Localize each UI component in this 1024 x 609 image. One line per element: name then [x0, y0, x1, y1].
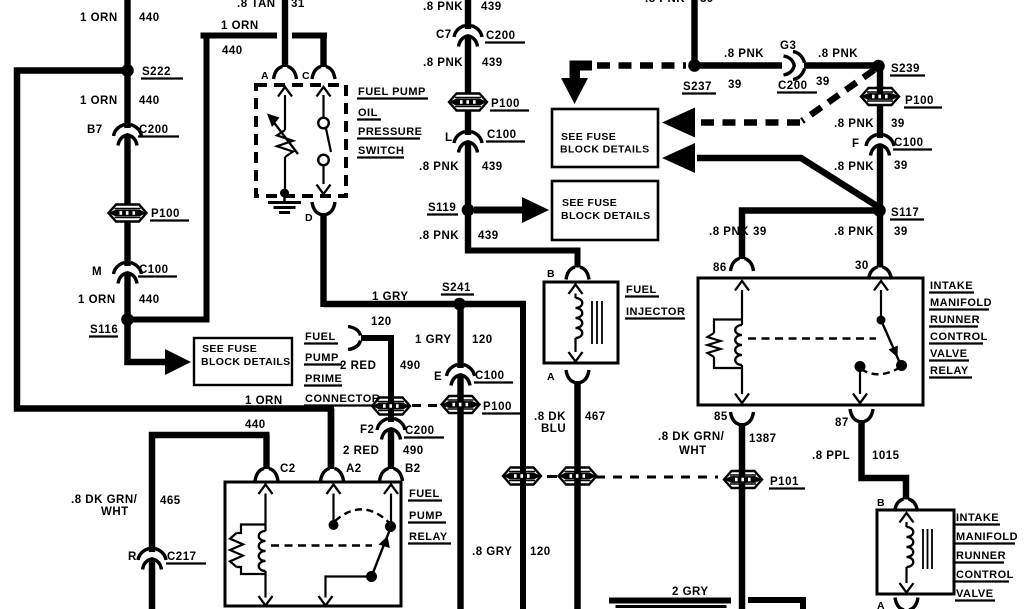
svg-text:B7: B7 [87, 124, 103, 136]
svg-text:FUEL PUMP: FUEL PUMP [358, 86, 426, 98]
relay1 internal arrow-in C2 [259, 485, 273, 495]
svg-text:A2: A2 [346, 463, 362, 475]
svg-text:SWITCH: SWITCH [358, 145, 404, 157]
relay1 switch contact dot A2 [329, 520, 339, 530]
label .8 PNK below S117 [834, 226, 874, 238]
pin 87 cup [850, 409, 873, 422]
svg-text:C100: C100 [475, 370, 505, 382]
wire P100 to C100 F .8 PNK 39 [877, 105, 883, 139]
svg-text:SEE FUSE: SEE FUSE [202, 343, 257, 355]
splice S222 [121, 64, 134, 77]
label S116 [89, 324, 118, 337]
svg-text:440: 440 [139, 294, 160, 306]
label 2 GRY [672, 586, 709, 598]
svg-text:.8 DK: .8 DK [534, 411, 566, 423]
svg-text:1 ORN: 1 ORN [78, 294, 116, 306]
svg-text:VALVE: VALVE [956, 588, 994, 600]
wire S116 down-right to arrow [128, 320, 167, 363]
splice S241 [453, 298, 466, 311]
label .8 PNK 39 [834, 118, 905, 130]
svg-text:.8 PNK: .8 PNK [834, 226, 874, 238]
label .8 DK GRN/WHT 1387 [658, 431, 777, 457]
dash between GRY and BLU grommets [547, 475, 557, 478]
svg-text:.8 PNK: .8 PNK [645, 0, 685, 5]
connector C200 pin G3 (inline horizontal) [784, 52, 805, 80]
svg-text:1387: 1387 [749, 433, 777, 445]
svg-text:87: 87 [835, 417, 849, 429]
label M C100 [92, 264, 177, 278]
label P100 [150, 208, 189, 221]
ground symbol [268, 193, 301, 213]
svg-text:1015: 1015 [872, 450, 900, 462]
intake manifold runner control valve box [877, 510, 954, 594]
svg-text:B2: B2 [405, 463, 421, 475]
relay2 coil resistor branch [708, 320, 743, 369]
svg-text:A: A [877, 600, 885, 609]
dashes between P100 grommets [412, 404, 446, 407]
label .8 PNK left of G3 [724, 48, 764, 60]
svg-text:31: 31 [291, 0, 305, 10]
wire C100 to S119 .8 PNK 439 [465, 143, 471, 254]
svg-text:P100: P100 [905, 95, 934, 107]
svg-text:.8 PNK: .8 PNK [724, 48, 764, 60]
svg-text:1 ORN: 1 ORN [80, 12, 118, 24]
svg-text:.8 TAN: .8 TAN [237, 0, 276, 10]
svg-text:467: 467 [585, 411, 606, 423]
svg-text:39: 39 [816, 76, 830, 88]
svg-text:BLOCK DETAILS: BLOCK DETAILS [201, 356, 291, 368]
label pin D [305, 212, 313, 224]
relay1 coil inductor [259, 531, 266, 571]
svg-text:490: 490 [400, 360, 421, 372]
svg-text:C100: C100 [487, 129, 517, 141]
svg-text:C100: C100 [139, 264, 169, 276]
label .8 PNK 39 above S117 [834, 160, 908, 173]
svg-text:PUMP: PUMP [305, 352, 339, 364]
label pin A injector [547, 371, 555, 383]
svg-text:.8 PNK: .8 PNK [423, 1, 463, 13]
relay1 internal arrow-out (coil) [259, 596, 273, 606]
svg-text:B: B [547, 268, 555, 280]
wire .8 DK GRN/WHT 465 below C217 [149, 560, 156, 609]
svg-text:39: 39 [891, 118, 905, 130]
pin B2 dome [380, 469, 403, 482]
svg-text:39: 39 [894, 160, 908, 172]
label 1 ORN 440 bottom [245, 395, 283, 431]
wire 2 RED 490 to pin B2 [388, 430, 394, 469]
pin C2 dome [255, 469, 278, 482]
svg-text:.8 PNK: .8 PNK [834, 161, 874, 173]
connector C200 pin F2 (inline) [377, 419, 405, 440]
wire S117 left to pin 86 [742, 211, 880, 260]
valve coil line upper [905, 522, 907, 527]
label INTAKE MANIFOLD RUNNER CONTROL VALVE RELAY [929, 280, 992, 378]
svg-text:C100: C100 [894, 137, 924, 149]
wire .8 PNK into S237 from top [691, 0, 697, 66]
fuel pump prime connector cup [348, 327, 361, 350]
label B2 [405, 463, 421, 475]
svg-text:P101: P101 [770, 476, 799, 488]
relay1 switch contact dot B2 [385, 521, 396, 532]
svg-text:FUEL: FUEL [305, 331, 336, 343]
svg-text:CONTROL: CONTROL [930, 331, 988, 343]
label C7 C200 [436, 29, 525, 43]
label S239 [890, 63, 925, 76]
svg-text:2 RED: 2 RED [340, 360, 376, 372]
splice S117 [873, 204, 886, 217]
svg-text:RUNNER: RUNNER [956, 550, 1006, 562]
svg-text:39: 39 [753, 226, 767, 238]
svg-text:OIL: OIL [358, 107, 378, 119]
wire 1 ORN 440 bottom run [14, 409, 334, 470]
label pin B injector [547, 268, 555, 280]
svg-text:.8 PNK: .8 PNK [419, 230, 459, 242]
wire A2 short [328, 409, 335, 470]
svg-text:39: 39 [700, 0, 714, 5]
second bottom box top edge [748, 600, 806, 609]
svg-text:BLOCK DETAILS: BLOCK DETAILS [560, 144, 650, 156]
label C2 [280, 463, 296, 475]
svg-text:1 ORN: 1 ORN [80, 95, 118, 107]
wire .8 TAN 31 into switch pin A [282, 0, 288, 67]
injector coil inductor [576, 298, 583, 338]
svg-text:FUEL: FUEL [409, 488, 440, 500]
switch contact circle lower [318, 155, 329, 166]
connector P100 (grommet) [109, 205, 147, 222]
relay2 switch line to 87 [859, 370, 861, 394]
relay1 switch dashed throw arc [335, 509, 389, 522]
switch internal line A to resistor [284, 95, 286, 130]
dashed wire S237 to down arrow [597, 62, 686, 69]
relay1 coil line lower [264, 571, 266, 598]
connector P100 (grommet) lower on GRY [503, 468, 541, 485]
wire 1 GRY horizontal to S241 [324, 301, 527, 307]
relay2 switch contact dot left [855, 361, 866, 372]
ground dot junction [280, 189, 289, 198]
pin 85 cup [731, 412, 754, 425]
label P100 [904, 95, 942, 108]
wire C200 to P100 .8 PNK [465, 37, 471, 94]
wire down to switch pin C [320, 36, 326, 68]
switch internal arrow-in C [317, 87, 331, 97]
svg-text:440: 440 [139, 95, 160, 107]
splice S239 [872, 60, 885, 73]
label SEE FUSE BLOCK DETAILS 3 [560, 131, 650, 156]
label .8 PNK 39 for pin 86 [709, 226, 767, 238]
pin B dome injector [566, 267, 589, 280]
svg-text:RELAY: RELAY [409, 531, 448, 543]
pin A cup injector [566, 370, 589, 383]
wire .8 DK BLU 467 from injector [574, 381, 581, 609]
svg-text:.8 PNK: .8 PNK [423, 57, 463, 69]
pin A2 dome [321, 469, 344, 482]
svg-text:.8 PPL: .8 PPL [812, 450, 850, 462]
wire S239 down to P100 [877, 66, 883, 94]
label .8 PNK 39 (cut at top) [645, 0, 714, 5]
label 1 GRY 120 (down branch) [415, 334, 493, 346]
svg-text:VALVE: VALVE [930, 348, 968, 360]
svg-text:C: C [302, 70, 310, 82]
wire corner S241 right down .8 GRY 120 [523, 304, 526, 609]
svg-text:C200: C200 [486, 30, 516, 42]
connector C200 pin C7 (inline) [454, 26, 482, 47]
connector C100 pin F (inline) [866, 135, 894, 156]
svg-text:S239: S239 [891, 63, 920, 75]
svg-text:INJECTOR: INJECTOR [626, 306, 685, 318]
connector P100 (grommet) on DK BLU [559, 468, 597, 485]
pin 86 dome [731, 259, 754, 272]
label P100 [490, 98, 529, 111]
wire S119 corner to injector pin B [468, 251, 578, 268]
label F2 C200 [360, 424, 444, 438]
label 85 [714, 411, 728, 423]
relay2 coil line upper [741, 290, 743, 325]
svg-text:465: 465 [160, 495, 181, 507]
svg-text:BLOCK DETAILS: BLOCK DETAILS [561, 210, 651, 222]
arrow solid into fuse box 3 [662, 143, 695, 173]
svg-text:.8 DK GRN/: .8 DK GRN/ [71, 494, 138, 506]
splice S116 [121, 313, 134, 326]
relay1 internal arrow-in A2 [327, 485, 341, 495]
relay1 coil-switch dashed link [271, 544, 372, 546]
switch internal arrow-out D [317, 185, 331, 195]
relay1 switch line to output [326, 577, 372, 598]
label pin B valve [877, 497, 885, 509]
connector P100 (grommet) on RED [372, 398, 410, 415]
label S241 [441, 282, 474, 295]
svg-text:PRESSURE: PRESSURE [358, 126, 423, 138]
arrow S119 to fuse block [474, 197, 549, 223]
fuel pump oil pressure switch dashed box [256, 85, 346, 196]
svg-text:A: A [547, 371, 555, 383]
relay1 coil resistor branch [230, 525, 266, 575]
svg-text:86: 86 [713, 262, 727, 274]
relay2 switch dashed throw arc [861, 368, 899, 374]
label FUEL PUMP OIL PRESSURE SWITCH [357, 86, 428, 158]
connector C100 pin L (inline) [454, 132, 482, 153]
connector C100 pin E (inline) [447, 365, 475, 386]
relay1 switch pivot dot [366, 571, 377, 582]
relay2 coil line lower [741, 365, 743, 394]
wire .8 PNK 39 S237 to G3 [695, 62, 783, 68]
arrow down into fuse box 3 [561, 61, 592, 105]
svg-text:C217: C217 [167, 551, 197, 563]
svg-text:WHT: WHT [101, 506, 129, 518]
relay2 internal arrow-out 87 [853, 394, 867, 404]
svg-text:SEE FUSE: SEE FUSE [561, 131, 616, 143]
relay1 switch line B2 [390, 494, 392, 523]
wire C100 to S116 1 ORN 440 [124, 274, 130, 320]
valve coil inductor [907, 527, 914, 567]
relay2 switch pivot dot [877, 316, 886, 325]
svg-text:E: E [434, 371, 442, 383]
label S119 [427, 202, 458, 215]
svg-text:.8 PNK: .8 PNK [709, 226, 749, 238]
label F C100 [852, 137, 932, 150]
label 2 RED 490 lower [343, 445, 424, 457]
svg-text:439: 439 [482, 57, 503, 69]
svg-text:C200: C200 [778, 80, 808, 92]
label 1 ORN 440 [80, 95, 160, 107]
svg-text:C2: C2 [280, 463, 296, 475]
svg-text:R: R [128, 551, 137, 563]
variable resistor (sender) zigzag [277, 130, 293, 157]
pin D dome of pressure switch [312, 202, 335, 215]
label .8 PNK 439 [423, 57, 503, 69]
relay2 coil inductor [735, 325, 742, 365]
label .8 PNK 39 right of G3 [816, 48, 858, 88]
wire 1 ORN 440 top corner to switch pin C (left segment) [204, 36, 278, 39]
relay2 internal arrow-out 85 [735, 394, 749, 404]
svg-text:WHT: WHT [679, 445, 707, 457]
label .8 TAN 31 [237, 0, 305, 10]
wire 2 RED 490 from prime connector [361, 338, 394, 422]
svg-text:120: 120 [530, 546, 551, 558]
label pin A valve [877, 600, 885, 609]
svg-text:INTAKE: INTAKE [930, 280, 973, 292]
svg-text:CONTROL: CONTROL [956, 569, 1014, 581]
pin A cup valve [895, 598, 918, 609]
connector P100 (grommet) middle [449, 94, 487, 111]
relay1 internal arrow-in B2 [384, 485, 398, 495]
injector internal arrow-out A [569, 352, 583, 362]
injector coil line upper [574, 294, 576, 299]
label INTAKE MANIFOLD RUNNER CONTROL VALVE [955, 512, 1018, 601]
label .8 PNK 439 top [423, 1, 502, 13]
switch internal sender arrow-in A [278, 87, 292, 97]
svg-text:P100: P100 [151, 208, 180, 220]
label .8 PNK 439 [419, 161, 503, 173]
svg-text:C7: C7 [436, 29, 452, 41]
dashes grommet to P101 [596, 476, 718, 479]
svg-text:439: 439 [482, 161, 503, 173]
label G3 C200 [777, 40, 817, 93]
svg-text:S117: S117 [891, 207, 919, 219]
svg-text:439: 439 [478, 230, 499, 242]
label FUEL INJECTOR [625, 284, 685, 319]
relay2 internal arrow-in 30 [874, 281, 888, 291]
wire P100 to C100 L [465, 110, 471, 135]
dashed wire S239 diagonal [802, 70, 874, 121]
wire P100 to C100 [124, 221, 130, 266]
label B7 C200 [87, 124, 179, 137]
injector coil line lower [574, 338, 576, 352]
svg-text:S222: S222 [142, 66, 171, 78]
pin A dome of pressure switch [274, 67, 297, 80]
label P101 [769, 476, 805, 489]
injector core bars [592, 301, 602, 344]
svg-text:2 GRY: 2 GRY [672, 586, 709, 598]
svg-text:F2: F2 [360, 424, 374, 436]
splice S119 [462, 204, 475, 217]
relay1 coil line upper [264, 494, 266, 532]
splice S237 [688, 59, 701, 72]
svg-text:120: 120 [371, 316, 392, 328]
label pin C [302, 70, 310, 82]
label pin A [261, 70, 269, 82]
connector C100 pin M (inline) [114, 263, 142, 284]
svg-text:.8 PNK: .8 PNK [834, 118, 874, 130]
svg-text:39: 39 [894, 226, 908, 238]
wire S241 down 1 GRY 120 [457, 304, 463, 368]
connector P101 (grommet) [724, 471, 762, 488]
wire S116 right to corner up [128, 36, 207, 320]
label L C100 [445, 129, 525, 144]
wire left vertical 1 ORN 440 [14, 68, 21, 412]
svg-text:RUNNER: RUNNER [930, 314, 980, 326]
svg-text:S119: S119 [428, 202, 456, 214]
fuel pump box top edge [609, 601, 731, 607]
label SEE FUSE BLOCK DETAILS 2 [561, 197, 651, 222]
svg-text:30: 30 [855, 260, 869, 272]
valve coil line lower [905, 567, 907, 583]
wire 1 ORN 440 S222 down to C200 [124, 71, 130, 129]
label FUEL PUMP PRIME CONNECTOR [304, 331, 380, 406]
connector C200 pin B7 (inline) [114, 125, 142, 146]
label R C217 [128, 551, 206, 564]
svg-text:B: B [877, 497, 885, 509]
svg-text:1 GRY: 1 GRY [372, 291, 409, 303]
wire 1 ORN 440 into S222 from top [124, 0, 130, 70]
wire .8 DK GRN/WHT 1387 from pin 85 [739, 423, 746, 609]
svg-text:L: L [445, 132, 453, 144]
wire .8 PPL 1015 from pin 87 [862, 420, 907, 500]
svg-text:BLU: BLU [541, 423, 566, 435]
label A2 [346, 463, 362, 475]
label S222 [141, 66, 183, 79]
label 1 ORN 440 (switch feed) [221, 20, 259, 57]
svg-text:M: M [92, 266, 102, 278]
svg-text:490: 490 [403, 445, 424, 457]
fuel pump relay box [225, 482, 401, 606]
fuel injector box [544, 282, 618, 363]
switch blade [326, 129, 331, 153]
svg-text:C200: C200 [139, 124, 169, 136]
label E C100 [434, 370, 513, 383]
svg-text:S237: S237 [683, 81, 712, 93]
switch internal line to pin D [322, 166, 324, 185]
valve core bars [923, 529, 932, 569]
label 2 RED 490 [340, 360, 421, 372]
label SEE FUSE BLOCK DETAILS 1 [201, 343, 291, 368]
relay2 internal arrow-in 86 [735, 281, 749, 291]
wire S222 to left corner [14, 67, 128, 73]
svg-text:.8 GRY: .8 GRY [472, 546, 512, 558]
valve internal arrow-in B [900, 513, 914, 523]
relay2 switch line 30 [880, 290, 882, 316]
svg-text:MANIFOLD: MANIFOLD [930, 297, 992, 309]
relay1 switch blade [372, 528, 391, 577]
svg-text:S241: S241 [442, 282, 471, 294]
svg-text:440: 440 [222, 45, 243, 57]
svg-text:.8 PNK: .8 PNK [818, 48, 858, 60]
svg-text:F: F [852, 138, 860, 150]
label 1 GRY 120 [371, 291, 409, 328]
svg-text:P100: P100 [491, 98, 520, 110]
pin 30 dome [869, 267, 892, 280]
svg-text:39: 39 [728, 79, 742, 91]
label 30 [855, 260, 869, 272]
svg-text:PRIME: PRIME [305, 373, 342, 385]
svg-text:CONNECTOR: CONNECTOR [305, 393, 380, 405]
relay1 internal arrow-out (switch) [319, 596, 333, 606]
svg-text:439: 439 [481, 1, 502, 13]
wire C100 E to P100 [457, 376, 463, 609]
fuse block details box 3 (upper right) [552, 109, 658, 167]
svg-text:440: 440 [245, 419, 266, 431]
svg-text:1 ORN: 1 ORN [245, 395, 283, 407]
valve internal arrow-out A [900, 583, 914, 593]
